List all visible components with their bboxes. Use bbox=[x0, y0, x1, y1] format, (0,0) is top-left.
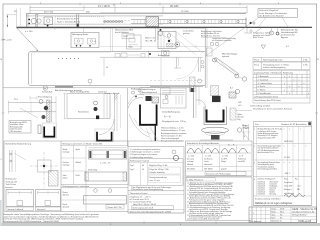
svg-text:gekürzt: gekürzt bbox=[183, 32, 190, 35]
svg-text:überwacht: überwacht bbox=[204, 163, 213, 166]
svg-text:4: 4 bbox=[254, 179, 255, 181]
secondary dim lines bbox=[30, 9, 84, 11]
svg-text:L = LB + 70: L = LB + 70 bbox=[100, 163, 111, 165]
svg-text:a ≥ 150: a ≥ 150 bbox=[205, 154, 211, 157]
svg-text:50: 50 bbox=[106, 67, 108, 69]
svg-text:OFF +2,15: OFF +2,15 bbox=[1, 40, 12, 42]
detail D2 bbox=[64, 91, 121, 141]
svg-text:direkt: direkt bbox=[76, 148, 81, 151]
panel borders bbox=[4, 141, 184, 213]
svg-text:151234-17: 151234-17 bbox=[258, 189, 266, 191]
svg-text:Zust. Änderung: Zust. Änderung bbox=[250, 220, 262, 223]
svg-text:Raster 300 / 250: Raster 300 / 250 bbox=[108, 206, 122, 209]
svg-text:Dämpfer beidseitig: Dämpfer beidseitig bbox=[150, 171, 165, 174]
Bohrbild panel bbox=[6, 143, 61, 211]
svg-text:OFF beachten: OFF beachten bbox=[10, 130, 22, 133]
closer block bbox=[146, 17, 159, 27]
Combination table panel bbox=[61, 143, 128, 212]
left-of-table annotations bbox=[236, 102, 252, 140]
svg-text:Aushängesicherung montieren: Aushängesicherung montieren bbox=[161, 132, 187, 135]
svg-text:230V: 230V bbox=[123, 36, 128, 38]
svg-text:Anschlusskabel 2,5 m: Anschlusskabel 2,5 m bbox=[258, 151, 275, 154]
door leading edge detail x=152 bbox=[156, 28, 173, 41]
small box below bbox=[162, 51, 170, 57]
svg-text:A — A: A — A bbox=[164, 115, 171, 118]
svg-text:einstand: einstand bbox=[242, 127, 249, 130]
rail left end cap bbox=[25, 14, 27, 27]
bar drawing 1 bbox=[89, 147, 127, 149]
balloon A on bottom edge bbox=[43, 86, 47, 90]
svg-text:2. Dauerauf: 2. Dauerauf bbox=[258, 79, 269, 81]
svg-text:90: 90 bbox=[142, 169, 144, 171]
svg-text:rel. Feuchte max. 85 %: rel. Feuchte max. 85 % bbox=[130, 198, 150, 201]
svg-text:151235-20: 151235-20 bbox=[258, 191, 266, 193]
svg-text:8: 8 bbox=[244, 136, 245, 138]
svg-text:MSL 2: MSL 2 bbox=[285, 173, 290, 175]
svg-text:x: x bbox=[284, 76, 285, 78]
svg-text:1450,- EUR: 1450,- EUR bbox=[284, 186, 293, 188]
svg-text:Bedienung: Bedienung bbox=[283, 72, 293, 74]
svg-text:max. 1,5 m/s: max. 1,5 m/s bbox=[150, 180, 160, 182]
svg-text:bauseits: bauseits bbox=[281, 36, 288, 39]
svg-text:Netzanschluss 230V: Netzanschluss 230V bbox=[115, 29, 134, 32]
svg-text:Seitenverstellung +/- 2,5 mm: Seitenverstellung +/- 2,5 mm bbox=[161, 129, 186, 132]
svg-text:Flügel bis 80 kg / 1 Stk.: Flügel bis 80 kg / 1 Stk. bbox=[149, 164, 168, 167]
svg-text:LD 1065: LD 1065 bbox=[181, 11, 189, 13]
two drilling plates bbox=[6, 190, 34, 207]
svg-text:Variante 1 öffnend: Variante 1 öffnend bbox=[8, 208, 23, 211]
svg-text:x: x bbox=[304, 83, 305, 85]
svg-text:richtung: richtung bbox=[187, 160, 193, 163]
svg-text:2: 2 bbox=[254, 146, 255, 148]
svg-text:Wz: Wz bbox=[280, 214, 283, 216]
svg-text:151232-05: 151232-05 bbox=[258, 185, 266, 187]
svg-text:bauseits: bauseits bbox=[6, 186, 13, 189]
scan edge shading bottom bbox=[0, 223, 320, 226]
svg-text:Winkel: Winkel bbox=[76, 162, 82, 164]
svg-text:410 / 510: 410 / 510 bbox=[44, 12, 54, 14]
dashed info rect in rail bbox=[55, 17, 104, 25]
svg-text:Befestigungsraster Laufschien: Befestigungsraster Laufschiene bbox=[63, 185, 90, 188]
svg-text:GEZE 8050: GEZE 8050 bbox=[284, 141, 293, 143]
svg-text:Pos: Pos bbox=[295, 178, 298, 180]
rail top chord bbox=[26, 13, 246, 15]
vertical divider after D2 bbox=[127, 88, 129, 147]
svg-text:x: x bbox=[289, 93, 290, 95]
svg-text:Deckprofil: Deckprofil bbox=[270, 183, 278, 185]
svg-text:Endkappen: Endkappen bbox=[270, 185, 278, 187]
svg-text:Vollschutz: Vollschutz bbox=[238, 158, 246, 161]
svg-text:Bodenführung im: Bodenführung im bbox=[141, 88, 156, 91]
svg-text:F1 = 100 N: F1 = 100 N bbox=[98, 5, 110, 8]
svg-text:6. Handbetrieb: 6. Handbetrieb bbox=[258, 92, 272, 95]
svg-text:Pos.: Pos. bbox=[255, 124, 259, 126]
svg-text:5. Winter: 5. Winter bbox=[258, 89, 266, 92]
svg-text:Schnitt A-A: Schnitt A-A bbox=[42, 91, 53, 94]
svg-text:1) Einstellung ab Werk: 1) Einstellung ab Werk bbox=[250, 104, 270, 107]
svg-text:montage: montage bbox=[63, 150, 70, 153]
svg-text:Erforderliche Schutzflügel-Abs: Erforderliche Schutzflügel-Abstände bbox=[187, 142, 220, 145]
svg-text:Flügel bis 120 kg / 2 Stk.: Flügel bis 120 kg / 2 Stk. bbox=[150, 168, 170, 171]
slanted bar with hatch bbox=[214, 58, 239, 76]
svg-text:Senkung ø18: Senkung ø18 bbox=[6, 181, 17, 183]
boxed figure B bbox=[127, 35, 142, 49]
svg-text:Bohrbild für Bodenführung: Bohrbild für Bodenführung bbox=[6, 143, 32, 146]
svg-text:Tiefe 14 mm: Tiefe 14 mm bbox=[6, 184, 17, 186]
svg-text:Maßblatt gilt nur mit zugeh. A: Maßblatt gilt nur mit zugeh. Auftragsbes… bbox=[255, 202, 293, 205]
svg-text:1. Laufschiene waagrecht ausri: 1. Laufschiene waagrecht ausrichten bbox=[130, 148, 161, 151]
svg-text:Maßstab 1:10: Maßstab 1:10 bbox=[271, 220, 281, 223]
plan right end frame bbox=[161, 28, 247, 88]
detail D1 bbox=[9, 96, 57, 138]
svg-text:Leiste: Leiste bbox=[204, 160, 209, 163]
svg-text:1 Stk: 1 Stk bbox=[303, 63, 308, 66]
svg-text:151236-22: 151236-22 bbox=[258, 193, 266, 195]
svg-text:±0,0: ±0,0 bbox=[238, 105, 241, 107]
svg-text:Datum: Datum bbox=[271, 207, 277, 210]
svg-text:nur trockene Räume IP20: nur trockene Räume IP20 bbox=[130, 201, 152, 204]
svg-text:Verriegelung mech. m. Motor-: Verriegelung mech. m. Motor- bbox=[263, 63, 290, 66]
svg-text:3: 3 bbox=[254, 163, 255, 165]
small vertical dim bbox=[103, 58, 105, 76]
svg-text:Sonderausstattung siehe Blatt: Sonderausstattung siehe Blatt 2 bbox=[255, 197, 280, 200]
signature scribble bbox=[284, 194, 305, 198]
small flow symbols left of box bbox=[252, 21, 256, 25]
svg-text:Typ 2: Typ 2 bbox=[130, 169, 134, 171]
svg-text:Montage-Maßblatt: Montage-Maßblatt bbox=[292, 214, 307, 217]
svg-text:Klemmleiste: Klemmleiste bbox=[78, 111, 90, 114]
svg-text:EN 16005: EN 16005 bbox=[187, 169, 195, 171]
svg-text:geprüft: geprüft bbox=[221, 168, 227, 171]
svg-text:Slimdrive SL NT Ausstattung: Slimdrive SL NT Ausstattung bbox=[281, 123, 306, 126]
section 1 bbox=[254, 128, 301, 144]
svg-text:09.09: 09.09 bbox=[280, 208, 284, 210]
svg-text:Rollenwagen Tragkraft: Rollenwagen Tragkraft bbox=[130, 160, 149, 163]
drive axis equipment bbox=[115, 51, 204, 73]
carriage block bbox=[44, 17, 53, 25]
svg-text:x: x bbox=[289, 76, 290, 78]
svg-text:Profil: Profil bbox=[76, 175, 81, 177]
svg-text:10/12 mm: 10/12 mm bbox=[98, 91, 107, 93]
dimension row above plan bbox=[100, 45, 211, 47]
svg-text:Mitnehmerklappe: Mitnehmerklappe bbox=[222, 53, 238, 56]
detail D5 : big section bbox=[194, 86, 250, 147]
wall bracket at x=160 bbox=[175, 31, 195, 47]
svg-text:Antrieb Slimdrive SL NT-FR: Antrieb Slimdrive SL NT-FR bbox=[57, 18, 80, 21]
svg-text:nach EN: nach EN bbox=[238, 161, 246, 163]
section 2 bbox=[254, 144, 307, 159]
small stamp bbox=[9, 121, 31, 134]
roller circles bbox=[103, 21, 123, 23]
bar drawing 3 bbox=[94, 189, 98, 193]
svg-text:Glas nicht entspiegelt: Glas nicht entspiegelt bbox=[161, 137, 180, 140]
boxed figure A (fixing variants) bbox=[71, 33, 99, 48]
svg-text:mit Sensor: mit Sensor bbox=[204, 158, 213, 161]
svg-text:DIN 18650: DIN 18650 bbox=[204, 169, 213, 171]
boxed label under plan bbox=[140, 88, 170, 95]
diagonal leader to plan view bbox=[17, 28, 38, 51]
svg-text:Gepr.: Gepr. bbox=[271, 213, 276, 216]
svg-text:2x: 2x bbox=[113, 5, 115, 7]
svg-text:Notentriegelung innen: Notentriegelung innen bbox=[263, 59, 283, 62]
svg-text:Stück: Stück bbox=[284, 177, 288, 180]
left vertical dimension bbox=[15, 9, 17, 28]
svg-text:60: 60 bbox=[142, 165, 144, 167]
rail centre dashed line bbox=[124, 20, 131, 22]
svg-text:Schutzvermerk ISO 16016 beacht: Schutzvermerk ISO 16016 beachten · Stand… bbox=[3, 220, 60, 223]
svg-text:LW = FB - 35: LW = FB - 35 bbox=[145, 40, 156, 42]
svg-text:Pos.1: Pos.1 bbox=[254, 60, 260, 62]
svg-text:x: x bbox=[299, 86, 300, 88]
hanger verticals to plan bbox=[110, 28, 112, 51]
svg-text:Zuordnung Funkt. / Betriebsart: Zuordnung Funkt. / Betriebsart bbox=[254, 71, 282, 74]
svg-text:a ≥ 8: a ≥ 8 bbox=[239, 154, 243, 157]
svg-text:LB 1130: LB 1130 bbox=[170, 6, 179, 8]
svg-text:x: x bbox=[299, 79, 300, 81]
lintel thick line bbox=[17, 26, 313, 28]
svg-text:Sicherung bauseits 10 A: Sicherung bauseits 10 A bbox=[133, 206, 154, 209]
svg-text:x: x bbox=[284, 83, 285, 85]
svg-text:Flügelgewicht max. 120 kg: Flügelgewicht max. 120 kg bbox=[162, 120, 186, 123]
svg-text:a = 100: a = 100 bbox=[25, 31, 33, 33]
svg-text:montage: montage bbox=[63, 163, 70, 166]
slot + U channel bbox=[38, 125, 41, 134]
svg-text:Thermische Daten: Thermische Daten bbox=[130, 192, 149, 195]
svg-text:optional: optional bbox=[222, 55, 230, 58]
svg-text:Zubehör Profilsystem: Zubehör Profilsystem bbox=[258, 177, 276, 180]
svg-text:Marx: Marx bbox=[280, 210, 284, 213]
svg-text:Programmschalter DPS: Programmschalter DPS bbox=[258, 136, 277, 139]
top dimension line bbox=[30, 7, 247, 9]
svg-text:4. Endanschläge montieren: 4. Endanschläge montieren bbox=[130, 156, 153, 159]
svg-text:öffnend: öffnend bbox=[187, 164, 193, 166]
svg-text:Ganzglas-Schiebetür 1-flg.: Ganzglas-Schiebetür 1-flg. bbox=[292, 210, 315, 213]
svg-text:x: x bbox=[294, 79, 295, 81]
svg-text:x2: x2 bbox=[94, 41, 96, 43]
mid section bbox=[271, 207, 317, 223]
detail D4 : A-A box bbox=[161, 88, 187, 143]
svg-text:N5: N5 bbox=[280, 217, 282, 219]
text block mid right below rail bbox=[55, 27, 290, 49]
svg-text:In der Montage u. Funktionsber: In der Montage u. Funktionsber. bbox=[259, 12, 288, 15]
svg-text:mit Glaskante montieren: mit Glaskante montieren bbox=[212, 39, 231, 42]
svg-text:Typ 1: Typ 1 bbox=[130, 165, 134, 167]
svg-text:Fein-/Grobjust.: Fein-/Grobjust. bbox=[38, 96, 52, 99]
svg-text:70481-ep-08: 70481-ep-08 bbox=[298, 221, 312, 223]
boxed figure C (suspension) bbox=[158, 32, 176, 57]
leader text + box under rail x=115 bbox=[115, 29, 134, 39]
section 3 bbox=[254, 161, 290, 175]
svg-text:Maße Glasflügel ESG: Maße Glasflügel ESG bbox=[70, 91, 90, 93]
svg-text:a ≥ 200: a ≥ 200 bbox=[188, 154, 194, 157]
svg-text:Montage Laufschiene an Wand /: Montage Laufschiene an Wand / Decke M6 bbox=[63, 143, 104, 146]
svg-text:Antriebsachse: Antriebsachse bbox=[158, 54, 169, 57]
rail inner bottom line bbox=[26, 23, 163, 25]
svg-text:Höhenverstellung +/- 5 mm: Höhenverstellung +/- 5 mm bbox=[161, 127, 184, 130]
svg-text:Detail Aufhängung: Detail Aufhängung bbox=[162, 110, 181, 113]
svg-text:151231-02: 151231-02 bbox=[258, 183, 266, 185]
arch glyphs bbox=[187, 148, 248, 153]
leaf overlap hatch near right bottom bbox=[190, 77, 202, 92]
svg-text:ESG 10 mm: ESG 10 mm bbox=[253, 37, 264, 39]
svg-text:schloss und Entriegelung: schloss und Entriegelung bbox=[263, 66, 285, 69]
svg-text:Puffer: Puffer bbox=[128, 47, 133, 49]
svg-text:Befestigung Haube: Befestigung Haube bbox=[72, 33, 88, 36]
svg-text:des Antriebs keine Bauteile!: des Antriebs keine Bauteile! bbox=[259, 14, 284, 17]
svg-text:3. Ladenschluss: 3. Ladenschluss bbox=[258, 83, 272, 85]
svg-text:Norm: Norm bbox=[271, 216, 276, 219]
svg-text:1.11 Es gelten unsere AGB, Sta: 1.11 Es gelten unsere AGB, Stand 09.2009 bbox=[187, 218, 219, 221]
top-right note box bbox=[205, 9, 298, 57]
left approval grid bbox=[249, 207, 271, 223]
svg-text:Freiheit für Flügellauf!: Freiheit für Flügellauf! bbox=[259, 9, 279, 12]
svg-text:151233-11: 151233-11 bbox=[258, 187, 266, 189]
svg-text:GC 302: GC 302 bbox=[284, 157, 290, 159]
svg-text:Option:: Option: bbox=[237, 113, 243, 116]
belt/ladder strip bbox=[131, 20, 246, 24]
floor track grey strips bbox=[55, 86, 73, 88]
section 4: part number columns + signature bbox=[254, 177, 298, 181]
svg-text:x: x bbox=[289, 86, 290, 88]
svg-text:2-flg.: 2-flg. bbox=[237, 119, 241, 121]
svg-text:x) Programmschalter intern: x) Programmschalter intern bbox=[254, 95, 278, 98]
svg-text:a: a bbox=[253, 212, 254, 214]
svg-text:Flügel: Flügel bbox=[221, 161, 226, 163]
svg-text:Schutzart nach Risikoanalyse: Schutzart nach Risikoanalyse bbox=[206, 173, 231, 176]
dotted guide lines inside bbox=[100, 56, 203, 58]
details below lintel right bbox=[270, 27, 298, 39]
svg-text:1: 1 bbox=[254, 129, 255, 131]
svg-text:1. Allg. Hinweise: 1. Allg. Hinweise bbox=[187, 178, 204, 181]
svg-text:anbau: anbau bbox=[63, 177, 68, 179]
svg-text:Überschlagbereich: Überschlagbereich bbox=[141, 91, 157, 94]
svg-text:Umschaltung über DPS Taster: Umschaltung über DPS Taster bbox=[254, 99, 281, 102]
svg-text:a ≥ 100: a ≥ 100 bbox=[222, 154, 228, 157]
svg-text:Klemmprofil: Klemmprofil bbox=[270, 181, 279, 183]
svg-text:Maße in mm: Maße in mm bbox=[145, 38, 156, 40]
svg-text:151230-01: 151230-01 bbox=[258, 181, 266, 183]
svg-text:1 Stk: 1 Stk bbox=[303, 59, 308, 62]
svg-text:Klemmschrauben 15 Nm: Klemmschrauben 15 Nm bbox=[161, 134, 182, 137]
svg-text:Einzugsautomatik opt.: Einzugsautomatik opt. bbox=[150, 176, 168, 179]
svg-text:Bearb.: Bearb. bbox=[271, 210, 277, 213]
svg-text:3. Flügel einhängen und justie: 3. Flügel einhängen und justieren bbox=[130, 153, 158, 156]
mid hanger bbox=[76, 14, 78, 27]
svg-text:mit SFK: mit SFK bbox=[221, 158, 228, 161]
svg-text:x: x bbox=[284, 90, 285, 92]
svg-text:OKF: OKF bbox=[238, 102, 241, 104]
svg-text:Verstellung nur durch autorisi: Verstellung nur durch autorisiertes Pers… bbox=[253, 108, 292, 111]
svg-text:abstand: abstand bbox=[63, 205, 69, 208]
detail D3 bbox=[128, 89, 158, 142]
svg-text:x: x bbox=[294, 90, 295, 92]
svg-text:Weitere Infos siehe Montageanl: Weitere Infos siehe Montageanleitung Nr.… bbox=[130, 210, 171, 213]
svg-text:1. Automatik: 1. Automatik bbox=[258, 75, 269, 78]
svg-text:x: x bbox=[308, 93, 309, 95]
svg-text:Bodenf.: Bodenf. bbox=[270, 191, 276, 193]
svg-text:Pos.2: Pos.2 bbox=[254, 64, 260, 66]
svg-text:300 mm: 300 mm bbox=[63, 194, 70, 196]
svg-text:Stoß mittig: Stoß mittig bbox=[88, 168, 97, 171]
svg-text:2. Rollenwagen einsetzen u. si: 2. Rollenwagen einsetzen u. sichern bbox=[130, 151, 160, 154]
svg-text:Variante 2: Variante 2 bbox=[37, 208, 45, 211]
pricing text clusters bbox=[284, 181, 301, 195]
svg-text:4. Nacht: 4. Nacht bbox=[258, 85, 266, 88]
svg-text:Rückmeldung potentialfrei: Rückmeldung potentialfrei bbox=[258, 168, 278, 171]
svg-text:Bohrung ø12: Bohrung ø12 bbox=[6, 178, 17, 181]
